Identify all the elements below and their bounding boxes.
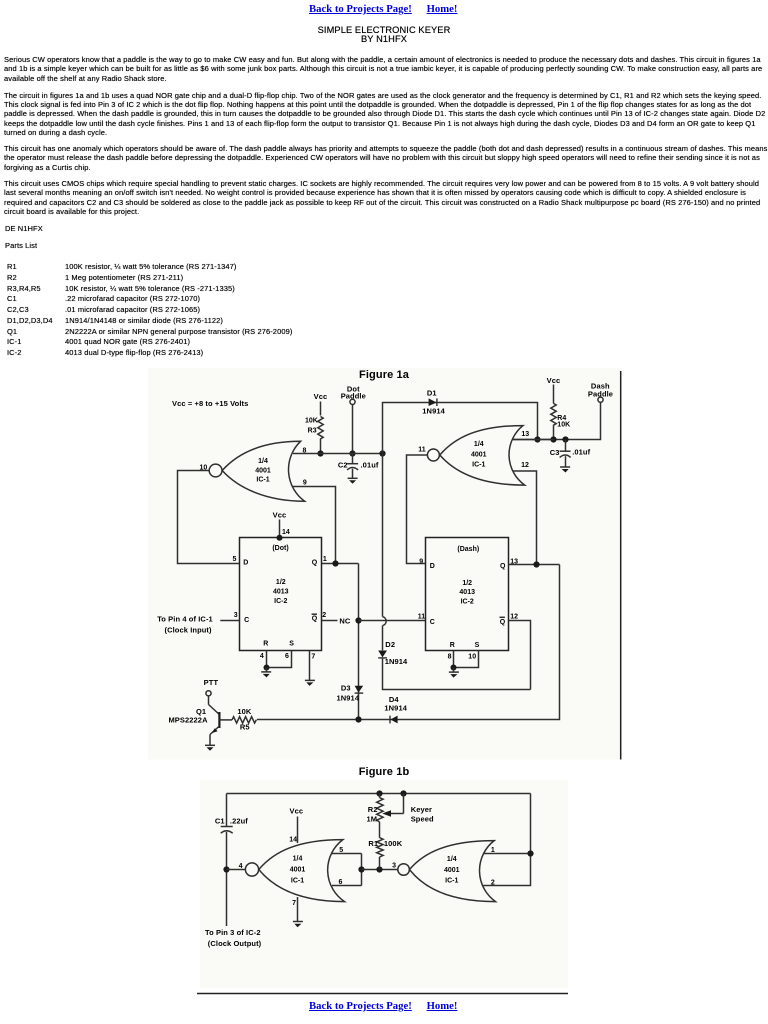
svg-text:R2: R2 bbox=[368, 805, 378, 814]
ground (FF1 R/S) bbox=[261, 668, 271, 678]
svg-text:11: 11 bbox=[418, 614, 426, 621]
svg-text:.01uf: .01uf bbox=[361, 460, 379, 469]
figure 1a right border line bbox=[620, 371, 622, 760]
wire Vcc to R3 bbox=[320, 402, 322, 416]
ground (FF1 pin7) bbox=[305, 680, 315, 686]
svg-text:8: 8 bbox=[303, 447, 307, 454]
svg-text:4013: 4013 bbox=[459, 589, 475, 596]
svg-text:1/4: 1/4 bbox=[293, 855, 303, 862]
bottom link: Back to Projects Page! bbox=[309, 1000, 412, 1012]
wire R3 to node bbox=[320, 441, 322, 454]
svg-text:(Dash): (Dash) bbox=[457, 546, 479, 553]
wire Vcc to FF1 pin14 bbox=[279, 520, 281, 538]
wire gate1 output to FF1 D pin bbox=[178, 471, 240, 564]
wire left vertical to C1 bbox=[226, 794, 228, 827]
figure 1a background bbox=[148, 368, 622, 760]
parts list table bbox=[7, 262, 53, 359]
svg-text:IC-1: IC-1 bbox=[472, 461, 485, 468]
capacitor C2 bbox=[352, 454, 354, 464]
svg-text:Keyer: Keyer bbox=[411, 805, 432, 814]
wire gate3 pin5 feedback bbox=[332, 853, 362, 855]
svg-text:3: 3 bbox=[234, 612, 238, 619]
svg-text:C2: C2 bbox=[338, 461, 348, 470]
svg-text:7: 7 bbox=[311, 654, 315, 661]
svg-text:Vcc = +8 to +15 Volts: Vcc = +8 to +15 Volts bbox=[172, 399, 248, 408]
svg-text:13: 13 bbox=[521, 431, 529, 438]
flip-flop IC-2 box (Dot) bbox=[240, 538, 322, 651]
svg-text:2: 2 bbox=[322, 612, 326, 619]
wire gate3 pin7 to ground bbox=[297, 897, 299, 922]
figure 1b bottom rule bbox=[197, 993, 568, 995]
svg-text:1/4: 1/4 bbox=[258, 458, 268, 465]
figure 1b background bbox=[200, 780, 568, 988]
svg-text:12: 12 bbox=[521, 462, 529, 469]
wire Vcc to gate3 pin14 bbox=[297, 817, 299, 844]
svg-text:4: 4 bbox=[239, 863, 243, 870]
svg-text:C: C bbox=[430, 619, 435, 626]
paragraph 4 bbox=[4, 179, 760, 217]
wire gate4 pin2 bbox=[483, 854, 530, 886]
svg-text:D1: D1 bbox=[427, 388, 437, 397]
node clock output junction bbox=[223, 866, 229, 872]
wire FF2 pins 8,10 to ground bbox=[453, 651, 455, 668]
wire C1 to junction and down bbox=[226, 832, 228, 926]
wire gate2 output to FF2 D pin bbox=[407, 455, 428, 564]
diode D2 bbox=[378, 651, 387, 658]
svg-text:11: 11 bbox=[418, 446, 426, 453]
ground (FF2 R/S) bbox=[449, 668, 459, 678]
svg-text:IC-2: IC-2 bbox=[461, 599, 474, 606]
svg-text:Q: Q bbox=[500, 563, 506, 570]
svg-text:(Clock Input): (Clock Input) bbox=[165, 626, 213, 635]
node pin8/vertical junction bbox=[379, 450, 385, 456]
svg-text:Q: Q bbox=[312, 616, 318, 623]
node gate2 pin12 / Q13 bbox=[533, 561, 539, 567]
potentiometer R2 bbox=[379, 794, 381, 798]
wire R4 to pin13 line bbox=[553, 426, 555, 440]
wire feedback vertical bbox=[361, 854, 363, 886]
svg-text:MPS2222A: MPS2222A bbox=[168, 716, 208, 725]
diode D3 bbox=[355, 686, 364, 693]
svg-text:1N914: 1N914 bbox=[385, 657, 408, 666]
svg-text:4001: 4001 bbox=[471, 451, 487, 458]
svg-text:1N914: 1N914 bbox=[384, 703, 407, 712]
svg-text:D3: D3 bbox=[341, 684, 351, 693]
node R2 top junction bbox=[376, 790, 382, 796]
transistor Q1 MPS2222A bbox=[208, 696, 210, 705]
figure 1a caption bbox=[0, 369, 768, 381]
svg-text:R: R bbox=[263, 641, 268, 648]
terminal PTT bbox=[206, 691, 211, 696]
svg-text:6: 6 bbox=[339, 879, 343, 886]
svg-text:1N914: 1N914 bbox=[337, 693, 360, 702]
svg-text:(Clock Output): (Clock Output) bbox=[208, 939, 262, 948]
wire FF2 Qbar pin12 loop bbox=[508, 621, 530, 690]
wire Vcc to R4 bbox=[553, 385, 555, 404]
svg-text:7: 7 bbox=[292, 900, 296, 907]
svg-text:IC-1: IC-1 bbox=[445, 877, 458, 884]
svg-text:D: D bbox=[430, 563, 435, 570]
figure 1b caption bbox=[0, 766, 768, 778]
svg-text:1M: 1M bbox=[366, 815, 377, 824]
wire FF2 Q pin13 to loop bbox=[508, 564, 559, 566]
ground (gate3 pin7) bbox=[293, 922, 303, 928]
svg-text:14: 14 bbox=[282, 529, 290, 536]
node R1 bottom junction bbox=[376, 866, 382, 872]
wire gate3 output rail to gate4 bbox=[362, 869, 398, 871]
wire D2 to Qbar12 rail bbox=[383, 658, 531, 689]
svg-text:1/2: 1/2 bbox=[276, 579, 286, 586]
svg-text:PTT: PTT bbox=[204, 678, 219, 687]
NOR gate IC-1 pins 4,5,6 (gate 3) bbox=[245, 863, 258, 876]
diode D4 bbox=[390, 716, 397, 724]
svg-text:14: 14 bbox=[289, 836, 297, 843]
svg-text:1/4: 1/4 bbox=[474, 441, 484, 448]
wire gate3 pin6 feedback bbox=[332, 885, 362, 887]
svg-text:R1: R1 bbox=[368, 839, 378, 848]
wire gate4 pin1 bbox=[484, 853, 531, 855]
ground (C2) bbox=[348, 478, 358, 484]
paragraph 3 bbox=[4, 144, 768, 172]
svg-text:2: 2 bbox=[491, 879, 495, 886]
ground (C3) bbox=[560, 467, 570, 473]
node dot paddle junction bbox=[349, 450, 355, 456]
capacitor C1 bbox=[221, 826, 233, 828]
svg-text:C1: C1 bbox=[215, 816, 225, 825]
wire R1 to output rail bbox=[379, 857, 381, 870]
terminal dot paddle bbox=[350, 399, 355, 404]
wire gate2 pin12 down to Q13 node bbox=[513, 471, 537, 565]
svg-text:Vcc: Vcc bbox=[314, 392, 328, 401]
svg-text:R3: R3 bbox=[308, 427, 317, 434]
top link: Back to Projects Page! bbox=[309, 3, 412, 15]
svg-text:.01uf: .01uf bbox=[572, 447, 590, 456]
R2 wiper arrow bbox=[390, 813, 404, 815]
NOR gate IC-1 pins 8,9,10 (gate 1) bbox=[209, 464, 222, 477]
svg-text:10: 10 bbox=[468, 654, 476, 661]
svg-text:Speed: Speed bbox=[411, 815, 434, 824]
svg-text:10K: 10K bbox=[305, 418, 318, 425]
svg-text:To Pin 4 of IC-1: To Pin 4 of IC-1 bbox=[157, 614, 213, 623]
svg-text:5: 5 bbox=[232, 556, 236, 563]
svg-text:NC: NC bbox=[339, 617, 351, 626]
svg-text:(Dot): (Dot) bbox=[272, 545, 288, 552]
svg-text:C: C bbox=[244, 617, 249, 624]
node feedback/output junction bbox=[358, 866, 364, 872]
svg-text:9: 9 bbox=[419, 558, 423, 565]
svg-text:4013: 4013 bbox=[273, 589, 289, 596]
node pin9/Q1 junction bbox=[332, 560, 338, 566]
Parts List heading bbox=[5, 241, 37, 250]
wire FF1 pins 4,6 to ground bbox=[266, 651, 268, 668]
top link: Home! bbox=[427, 3, 458, 15]
paragraph 2 bbox=[4, 91, 765, 138]
wire Q13 loop down to bottom rail bbox=[257, 565, 560, 720]
node R4/pin13 bbox=[550, 436, 556, 442]
node wiper junction bbox=[400, 790, 406, 796]
svg-text:6: 6 bbox=[285, 653, 289, 660]
svg-text:Q: Q bbox=[500, 619, 506, 626]
svg-text:IC-1: IC-1 bbox=[291, 877, 304, 884]
wire junction to gate3 bubble bbox=[227, 869, 246, 871]
svg-text:8: 8 bbox=[448, 654, 452, 661]
svg-text:4001: 4001 bbox=[290, 867, 306, 874]
svg-text:1/4: 1/4 bbox=[447, 856, 457, 863]
svg-text:Vcc: Vcc bbox=[273, 511, 287, 520]
svg-text:10K: 10K bbox=[557, 422, 570, 429]
paragraph 1 bbox=[4, 55, 762, 83]
svg-text:R5: R5 bbox=[240, 723, 250, 732]
svg-text:To Pin 3 of IC-2: To Pin 3 of IC-2 bbox=[205, 928, 261, 937]
wire gate1 pin9 to Q node bbox=[292, 487, 336, 564]
svg-text:D2: D2 bbox=[385, 640, 395, 649]
wire Q1 base to R5 bbox=[219, 719, 232, 721]
svg-text:S: S bbox=[289, 641, 294, 648]
wire dot paddle down bbox=[352, 405, 354, 454]
wire R2 to R1 bbox=[379, 822, 381, 838]
diode D1 bbox=[429, 398, 437, 406]
svg-text:IC-1: IC-1 bbox=[256, 476, 269, 483]
svg-text:4: 4 bbox=[260, 653, 264, 660]
svg-text:5: 5 bbox=[339, 847, 343, 854]
svg-text:IC-2: IC-2 bbox=[274, 598, 287, 605]
svg-text:R: R bbox=[450, 642, 455, 649]
svg-text:12: 12 bbox=[510, 614, 518, 621]
byline DE N1HFX bbox=[5, 224, 43, 233]
wire vertical with hop crossing C wire bbox=[382, 454, 384, 617]
wire top rail bbox=[227, 793, 531, 795]
svg-text:Q: Q bbox=[312, 560, 318, 567]
wire FF1 Q pin1 to vertical bbox=[322, 563, 359, 565]
node C3/pin13 bbox=[562, 436, 568, 442]
svg-text:D: D bbox=[243, 560, 248, 567]
svg-text:10K: 10K bbox=[237, 707, 252, 716]
node bottom rail / D3 bbox=[355, 716, 361, 722]
svg-text:9: 9 bbox=[303, 480, 307, 487]
resistor R5 bbox=[232, 717, 256, 723]
resistor R3 bbox=[318, 417, 323, 442]
wire FF1 pin7 to ground bbox=[309, 651, 311, 681]
svg-text:4001: 4001 bbox=[444, 867, 460, 874]
svg-text:.22uf: .22uf bbox=[230, 816, 248, 825]
node R3/pin8 junction bbox=[317, 450, 323, 456]
bottom link: Home! bbox=[427, 1000, 458, 1012]
svg-text:1N914: 1N914 bbox=[422, 407, 445, 416]
node D1 loop/pin13 bbox=[534, 436, 540, 442]
wire D1 loop (up, across, down to pin13) bbox=[383, 403, 538, 454]
resistor R4 bbox=[551, 403, 556, 425]
svg-text:3: 3 bbox=[392, 863, 396, 870]
wire FF1 Qbar to NC bbox=[322, 620, 338, 622]
wire gate1 pin8 to node bbox=[293, 453, 383, 455]
svg-text:1/2: 1/2 bbox=[462, 580, 472, 587]
svg-text:1: 1 bbox=[323, 556, 327, 563]
svg-text:S: S bbox=[475, 642, 480, 649]
svg-text:100K: 100K bbox=[384, 839, 403, 848]
capacitor C3 bbox=[565, 440, 567, 451]
svg-text:4001: 4001 bbox=[255, 467, 271, 474]
node pins 1/2 junction bbox=[527, 850, 533, 856]
page title bbox=[0, 26, 768, 45]
svg-text:C3: C3 bbox=[550, 448, 560, 457]
ground (Q1 emitter) bbox=[205, 745, 215, 751]
svg-text:Vcc: Vcc bbox=[289, 807, 303, 816]
wire right vertical from top rail bbox=[530, 794, 532, 854]
wire dash paddle down to pin13 line bbox=[513, 403, 601, 440]
wire C node to FF2 C pin bbox=[359, 620, 426, 622]
wire gate2 pin13 to dash node bbox=[513, 439, 554, 441]
node C-wire junction on Q1 vertical bbox=[355, 617, 361, 623]
svg-text:1: 1 bbox=[491, 847, 495, 854]
wire Q1 vertical down to bottom rail bbox=[358, 564, 360, 720]
terminal dash paddle bbox=[598, 397, 603, 402]
wire clock input to FF1 C bbox=[220, 620, 239, 622]
flip-flop IC-2 box (Dash) bbox=[426, 538, 509, 651]
NOR gate IC-1 pins 11,12,13 (gate 2) bbox=[427, 449, 439, 461]
resistor R1 bbox=[377, 838, 383, 857]
